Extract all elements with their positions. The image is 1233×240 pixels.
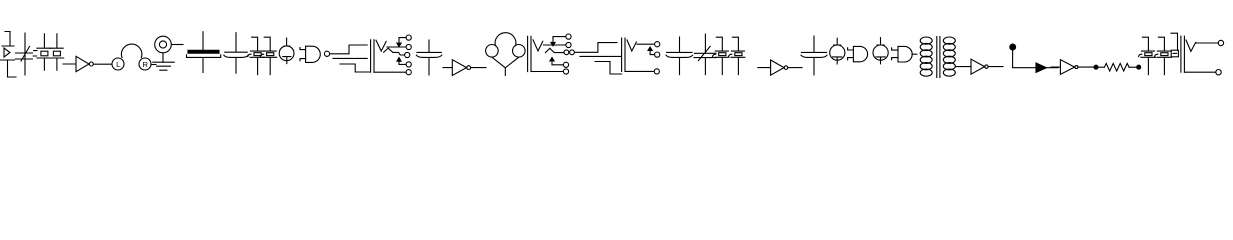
wire — [330, 45, 368, 54]
inverter U7 — [956, 59, 1003, 74]
crystal Y1 — [33, 34, 51, 70]
polarized capacitor C7 — [801, 36, 827, 75]
wire — [595, 62, 622, 75]
transformer T1 — [920, 37, 955, 78]
svg-text:R: R — [142, 60, 148, 69]
polarized capacitor C4 — [416, 40, 441, 75]
AND gate U5 — [848, 46, 868, 61]
inverter U8 — [1051, 60, 1094, 75]
electret microphone MK1 — [279, 38, 294, 64]
stereo jack socket J3 — [528, 34, 575, 74]
electrolytic capacitor C2 — [187, 32, 221, 73]
wire — [340, 64, 370, 72]
headphones SP2 — [486, 33, 525, 76]
svg-text:L: L — [116, 60, 120, 69]
mono jack socket J5 — [1171, 33, 1224, 75]
stereo jack socket J2 — [371, 35, 412, 75]
buffer U1 — [63, 56, 93, 71]
test point node A — [1010, 44, 1058, 72]
wire — [580, 55, 621, 57]
capacitor C3 — [224, 33, 248, 73]
crystal Y4 — [260, 37, 276, 74]
trimmer capacitor C6 — [694, 34, 716, 75]
electret microphone MK2 — [830, 38, 845, 64]
jack socket J1 — [155, 36, 183, 53]
headphones SP1 — [112, 44, 156, 70]
transducer BZ1 — [0, 32, 16, 78]
crystal Y2 — [50, 34, 64, 70]
AND gate U6 — [892, 46, 917, 62]
mono jack socket J4 — [622, 38, 660, 74]
crystal Y3 — [248, 37, 264, 74]
wire — [575, 43, 617, 53]
inverter U3 — [443, 60, 486, 76]
crystal Y5 — [713, 37, 729, 74]
electret microphone MK3 — [873, 38, 888, 64]
variable capacitor C1 — [16, 33, 33, 75]
wire — [94, 63, 112, 65]
inverter U4 — [758, 60, 802, 75]
ground — [153, 53, 174, 70]
crystal Y6 — [729, 37, 745, 74]
crystal Y7 — [1139, 37, 1156, 74]
crystal Y8 — [1155, 37, 1172, 74]
polarized capacitor C5 — [666, 37, 693, 75]
NAND gate U2 — [300, 46, 330, 62]
wire — [333, 57, 367, 59]
resistor R1 — [1094, 63, 1141, 71]
